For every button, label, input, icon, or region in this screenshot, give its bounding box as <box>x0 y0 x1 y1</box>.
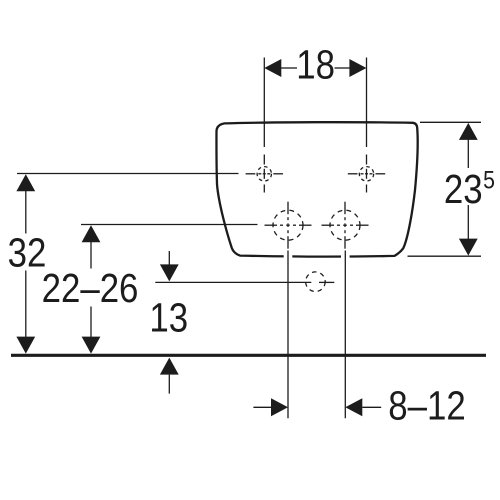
dimension 23.5 line <box>467 139 469 240</box>
svg-text:8–12: 8–12 <box>388 384 465 429</box>
svg-text:32: 32 <box>8 231 47 276</box>
dimension 32 up arrow <box>16 174 35 191</box>
svg-text:5: 5 <box>483 166 495 194</box>
extension line at connection height (for 22-26) <box>81 224 258 226</box>
dimension 23.5 extension line bottom <box>408 255 482 257</box>
dimension 18 line <box>281 67 350 69</box>
dimension 13 lower tail <box>168 375 170 394</box>
dimension 18 left arrow <box>264 59 281 77</box>
dimension 8-12 extension line left (below left connection) <box>287 251 289 419</box>
extension line at fixing-bolt height (for 32) <box>17 173 239 175</box>
ceramic outline (bidet rear view) <box>216 122 417 256</box>
water connection circle right (345,225.2) <box>322 202 369 249</box>
svg-text:18: 18 <box>296 43 335 88</box>
dimension 23.5 down arrow <box>459 239 478 256</box>
floor line <box>11 354 486 357</box>
dimension 22-26 line <box>90 242 92 337</box>
extension line at small outlet height (for 13) <box>155 281 334 283</box>
dimension 8-12 left tail <box>253 406 271 408</box>
dimension 32 down arrow <box>16 337 35 354</box>
small outlet circle (315.4,281.7) <box>306 272 326 292</box>
fixing point crosshair right (366.5,173.8) <box>348 58 385 193</box>
dimension 8-12 right arrow (pointing right) <box>271 398 288 416</box>
dimension 13 down arrow <box>160 264 179 281</box>
svg-text:23: 23 <box>444 167 483 212</box>
dimension 8-12 extension line right (below right connection) <box>344 251 346 419</box>
dimension 13 up arrow below floor <box>160 358 179 375</box>
dimension 8-12 left arrow (pointing left) <box>345 398 362 416</box>
svg-text:22–26: 22–26 <box>42 266 139 311</box>
fixing point crosshair left (264.3,173.8) <box>246 58 283 193</box>
dimension 23.5 up arrow <box>459 123 478 140</box>
dimension 18 right arrow <box>349 59 366 77</box>
dimension 23.5 extension line top <box>420 121 481 123</box>
water connection circle left (288,225.2) <box>265 202 312 249</box>
gap in ceramic bottom edge at left connection line <box>284 253 293 259</box>
svg-text:13: 13 <box>149 296 188 341</box>
dimension 22-26 up arrow <box>82 225 101 242</box>
dimension 22-26 down arrow <box>82 337 101 354</box>
dimension 32 line <box>25 191 27 337</box>
dimension 8-12 right tail <box>362 406 381 408</box>
dimension 13 upper tail <box>168 251 170 265</box>
gap in ceramic bottom edge at right connection line <box>341 253 350 259</box>
